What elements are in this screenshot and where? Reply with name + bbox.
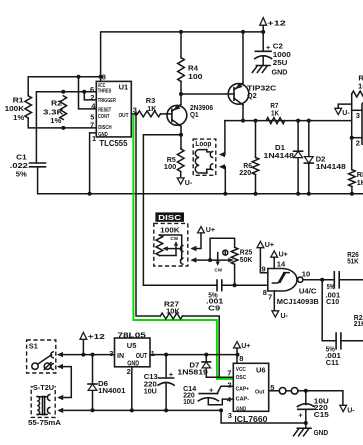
node: R4 bottom / Q2 base junction bbox=[179, 92, 183, 96]
svg-text:R1: R1 bbox=[13, 97, 24, 104]
resistor R6 bbox=[252, 158, 259, 175]
potentiometer DISC dashed box bbox=[154, 223, 188, 266]
svg-text:3: 3 bbox=[356, 111, 360, 120]
supply +12 bottom bbox=[80, 332, 105, 354]
connector arrow into S1 bottom bbox=[57, 364, 63, 369]
wire: green highlighted trace OUT to OSC bbox=[133, 115, 233, 379]
supply V- below R5 bbox=[177, 172, 193, 188]
svg-text:1N4148: 1N4148 bbox=[264, 153, 295, 160]
svg-text:C1: C1 bbox=[16, 154, 27, 161]
ground symbol bottom bbox=[294, 423, 329, 437]
resistor R7 bbox=[266, 118, 284, 124]
wire: R25 top over-loop bbox=[210, 238, 235, 260]
svg-text:100K: 100K bbox=[160, 225, 180, 234]
connector arrow into S1 top bbox=[57, 352, 63, 357]
svg-text:1N4148: 1N4148 bbox=[316, 164, 346, 171]
svg-text:R7: R7 bbox=[270, 103, 278, 110]
label 55-75mA bbox=[28, 419, 62, 428]
svg-text:2: 2 bbox=[90, 93, 94, 102]
svg-text:U5: U5 bbox=[127, 341, 137, 350]
ground symbol below C2 bbox=[252, 66, 287, 77]
svg-text:10K: 10K bbox=[166, 308, 180, 315]
connector arrow into loop upper terminal bbox=[219, 152, 225, 157]
node: OUT pin 3 junction bbox=[134, 112, 138, 116]
diode D2 1N4148 bbox=[304, 121, 313, 194]
node: R6 top junction bbox=[254, 119, 258, 123]
IC U1 TLC555 box bbox=[96, 81, 131, 136]
wire: pin 2 line to cut IC bbox=[352, 137, 362, 139]
potentiometer DISC 100K bbox=[156, 235, 183, 264]
wire: GND pin 1 to ground rail bbox=[90, 133, 97, 194]
capacitor C1 bbox=[30, 163, 46, 167]
node: +12 / C2 junction on top rail bbox=[261, 30, 265, 34]
connector circle pair on output bbox=[279, 388, 286, 395]
wire: R27 to OSC drop bbox=[182, 316, 219, 377]
wire: OUT trace down to R27 bbox=[136, 114, 160, 316]
wire: Q1 collector node to R5 bbox=[180, 126, 182, 149]
svg-text:1%: 1% bbox=[50, 118, 62, 125]
svg-text:CW: CW bbox=[214, 267, 222, 272]
node: R25 bottom junction bbox=[233, 283, 237, 287]
svg-text:OUT: OUT bbox=[136, 353, 148, 360]
svg-text:100: 100 bbox=[164, 164, 177, 171]
supply U+ above U6 bbox=[234, 342, 251, 364]
wire: RESET pin 4 branch bbox=[79, 77, 97, 109]
wire: OSC feed into U6 bbox=[206, 376, 233, 378]
svg-text:21K: 21K bbox=[354, 321, 363, 328]
node: R6 bottom junction bbox=[254, 192, 258, 196]
transistor Q2 TIP32C bbox=[228, 83, 249, 105]
svg-text:50K: 50K bbox=[240, 257, 253, 264]
svg-text:DISCH: DISCH bbox=[98, 125, 112, 131]
svg-text:R8: R8 bbox=[358, 75, 363, 82]
node: pin2 tap junction right edge bbox=[350, 136, 354, 140]
svg-text:D1: D1 bbox=[275, 145, 285, 152]
wire: S1 top feed line bbox=[63, 354, 115, 356]
svg-text:S1: S1 bbox=[29, 343, 38, 350]
svg-text:100: 100 bbox=[188, 74, 203, 81]
svg-text:8: 8 bbox=[263, 288, 267, 297]
svg-text:3: 3 bbox=[228, 411, 232, 420]
wire: CAP- pin 4 jog to C14 bottom bbox=[208, 399, 233, 405]
wire: U5 OUT rail to U6 VCC bbox=[150, 354, 238, 356]
svg-text:R6: R6 bbox=[243, 163, 252, 170]
svg-text:U-: U- bbox=[185, 180, 193, 187]
switch S1 dashed box bbox=[27, 340, 56, 373]
connector arrow into transformer top bbox=[57, 395, 63, 400]
svg-text:S-T2U: S-T2U bbox=[33, 385, 54, 392]
wire: S1 bottom loop to transformer top bbox=[63, 367, 71, 398]
node: loop return junction on ground rail bbox=[223, 192, 227, 196]
capacitor C15 electrolytic bbox=[297, 391, 314, 423]
svg-text:5%: 5% bbox=[16, 172, 28, 179]
wire: R4 top to +12 rail bbox=[180, 32, 182, 58]
transistor Q1 2N3906 bbox=[167, 104, 187, 126]
svg-text:IN: IN bbox=[117, 353, 124, 360]
svg-text:Loop: Loop bbox=[195, 141, 211, 148]
svg-text:+12: +12 bbox=[88, 332, 105, 341]
svg-text:1: 1 bbox=[151, 349, 155, 358]
connector arrow into transformer bottom bbox=[57, 408, 63, 413]
capacitor C10 bbox=[334, 272, 339, 288]
wire: C10 right lead off edge bbox=[339, 279, 363, 281]
wire: CAP+ pin 2 jog to C14 top bbox=[217, 386, 233, 393]
supply U+ for U4 pin 9 bbox=[257, 241, 274, 272]
node: D7 top junction bbox=[204, 353, 208, 357]
svg-text:+: + bbox=[266, 43, 271, 52]
svg-text:7: 7 bbox=[90, 120, 94, 129]
wire: C11 right lead off edge bbox=[341, 340, 363, 342]
connector arrow into DISC pot end bbox=[190, 257, 196, 262]
node: D2 bottom junction bbox=[307, 192, 311, 196]
gate U4/C MCJ14093B bbox=[268, 269, 303, 292]
wire: U4 output to C10 bbox=[303, 279, 335, 281]
IC U6 ICL7660 box bbox=[233, 363, 268, 411]
wire: transformer return rail bbox=[63, 409, 221, 411]
svg-text:R4: R4 bbox=[188, 65, 198, 72]
connector arrow into DISC pot wiper bbox=[190, 246, 196, 251]
supply V- for U4 pin 7 bbox=[272, 291, 289, 320]
diode D7 1N5819 bbox=[202, 355, 211, 378]
svg-text:OSC: OSC bbox=[236, 375, 247, 381]
wire: C1 bottom to ground rail bbox=[38, 167, 363, 194]
svg-text:1: 1 bbox=[92, 134, 96, 143]
svg-text:U4/C: U4/C bbox=[299, 287, 317, 296]
svg-text:CAP-: CAP- bbox=[236, 397, 250, 403]
capacitor C11 bbox=[336, 333, 341, 349]
svg-text:GND: GND bbox=[272, 70, 288, 77]
svg-text:R8: R8 bbox=[357, 172, 363, 179]
wire: C9 left lead bbox=[143, 284, 217, 286]
svg-text:55-75mA: 55-75mA bbox=[28, 420, 61, 427]
supply V- top right bbox=[335, 104, 352, 117]
svg-text:7: 7 bbox=[268, 292, 272, 301]
wire: R1 bottom to DISCH line bbox=[28, 118, 96, 128]
svg-text:8: 8 bbox=[239, 354, 243, 363]
node: D6 top junction bbox=[91, 353, 95, 357]
wire: pin 3 line to cut IC bbox=[352, 109, 362, 111]
capacitor C2 electrolytic bbox=[255, 32, 272, 66]
node: Q2 collector junction bbox=[241, 119, 245, 123]
node: D1 bottom junction bbox=[296, 192, 300, 196]
label S-T2U bbox=[33, 384, 55, 393]
node: GND pin junction on ground rail bbox=[88, 192, 92, 196]
svg-text:RESET: RESET bbox=[98, 107, 111, 113]
svg-text:78L05: 78L05 bbox=[117, 332, 146, 339]
svg-text:2N3906: 2N3906 bbox=[190, 105, 213, 112]
svg-text:GND: GND bbox=[314, 430, 329, 437]
svg-text:1000: 1000 bbox=[273, 52, 291, 59]
svg-text:.022: .022 bbox=[10, 163, 28, 170]
svg-text:U-: U- bbox=[347, 407, 355, 414]
wire: U5 GND to return rail bbox=[131, 367, 133, 411]
wire: C9 right lead to U4 pin 8 bbox=[222, 284, 268, 286]
wire: R6 bottom lead bbox=[255, 175, 257, 194]
svg-text:220: 220 bbox=[144, 381, 157, 388]
svg-text:3: 3 bbox=[109, 349, 113, 358]
svg-text:10U: 10U bbox=[144, 389, 157, 396]
wire: tap to C9 down-run bbox=[143, 135, 181, 286]
node: Q2 emitter junction on +12 rail bbox=[241, 30, 245, 34]
wire: Q1 emitter to R4 junction bbox=[180, 94, 182, 104]
svg-text:R2: R2 bbox=[51, 101, 62, 108]
svg-text:U+: U+ bbox=[279, 251, 288, 258]
svg-text:DISC: DISC bbox=[158, 213, 182, 222]
svg-text:14: 14 bbox=[277, 259, 286, 268]
wire: R9 bottom to ground rail bbox=[351, 187, 353, 194]
svg-text:1K: 1K bbox=[147, 104, 157, 113]
wire: Q2 collector drop to loop rail bbox=[242, 105, 244, 121]
svg-text:9: 9 bbox=[262, 264, 266, 273]
capacitor C13 electrolytic bbox=[158, 355, 174, 411]
node: C15 bottom ground junction bbox=[304, 421, 308, 425]
wire: output to C15 and V- bbox=[298, 391, 343, 405]
node: D2 top junction bbox=[307, 119, 311, 123]
svg-text:U-: U- bbox=[342, 110, 350, 117]
svg-text:220: 220 bbox=[239, 170, 251, 177]
svg-text:Out: Out bbox=[255, 389, 265, 395]
svg-text:1N5819: 1N5819 bbox=[177, 369, 208, 376]
node: C13 top junction bbox=[164, 353, 168, 357]
svg-text:C11: C11 bbox=[326, 360, 339, 367]
supply +12 top bbox=[260, 18, 286, 32]
svg-text:1N4001: 1N4001 bbox=[98, 388, 126, 395]
supply U+ disc wiper bbox=[196, 227, 215, 249]
svg-text:Q1: Q1 bbox=[190, 112, 199, 119]
node: R2 top junction on THRES line bbox=[61, 90, 65, 94]
svg-text:2: 2 bbox=[227, 381, 231, 390]
svg-text:10U: 10U bbox=[183, 399, 195, 406]
resistor R1 bbox=[25, 96, 32, 118]
node: +12 junction bbox=[81, 353, 85, 357]
svg-text:TIP32C: TIP32C bbox=[247, 85, 276, 92]
svg-text:VCC: VCC bbox=[236, 367, 246, 373]
wire: Q2 base line bbox=[181, 93, 234, 95]
wire: R6 top lead bbox=[255, 121, 257, 158]
wire: R3 to Q1 base bbox=[161, 113, 172, 115]
node: R2 bottom junction on DISCH line bbox=[61, 126, 65, 130]
svg-text:51K: 51K bbox=[347, 258, 359, 265]
svg-text:2: 2 bbox=[127, 367, 131, 376]
label DISC inverse bbox=[155, 212, 184, 222]
svg-text:10: 10 bbox=[302, 269, 310, 278]
connector Loop dashed box bbox=[193, 139, 216, 175]
wire: U6 Out pin 5 bbox=[269, 390, 280, 392]
svg-text:8: 8 bbox=[102, 72, 106, 81]
svg-text:+12: +12 bbox=[267, 19, 286, 28]
wire: loop rail left drop to upper loop arrow bbox=[223, 121, 225, 155]
svg-text:C10: C10 bbox=[326, 299, 339, 306]
supply V- output bbox=[340, 405, 355, 414]
svg-text:.001: .001 bbox=[325, 353, 341, 360]
inductor loop coil bbox=[195, 150, 212, 173]
wire: output down to C11 bbox=[322, 280, 336, 341]
svg-text:C15: C15 bbox=[314, 412, 329, 419]
svg-text:GND: GND bbox=[236, 406, 246, 412]
svg-text:CONT: CONT bbox=[98, 114, 110, 120]
node: pin 8 riser junction with VCC wire bbox=[99, 75, 103, 79]
capacitor C9 bbox=[217, 280, 222, 291]
supply U+ for U4 pin 14 bbox=[271, 251, 288, 269]
diode D6 1N4001 bbox=[88, 355, 97, 411]
resistor R8 partial at right edge bbox=[352, 91, 363, 97]
resistor R5 bbox=[177, 149, 184, 172]
node: GND pin rail junction bbox=[219, 408, 223, 412]
svg-text:THRES: THRES bbox=[98, 88, 112, 94]
connector arrow from loop lower terminal bbox=[219, 164, 225, 169]
svg-text:220: 220 bbox=[314, 405, 328, 412]
IC U2 cut box edge bbox=[362, 103, 363, 145]
node: C13 bottom junction bbox=[164, 408, 168, 412]
node: Q1 collector / C9 tap junction bbox=[179, 133, 183, 137]
svg-text:R27: R27 bbox=[164, 301, 179, 308]
svg-text:U+: U+ bbox=[241, 343, 250, 350]
node: C15 top junction bbox=[304, 389, 308, 393]
svg-text:U-: U- bbox=[281, 313, 289, 320]
wire: THRES line to C1 bbox=[36, 92, 96, 163]
svg-text:5%: 5% bbox=[327, 284, 336, 291]
wire: OUT pin 3 stub bbox=[131, 113, 137, 115]
capacitor C14 electrolytic bbox=[198, 386, 218, 401]
svg-text:U6: U6 bbox=[256, 365, 266, 374]
wire: R4 bottom lead bbox=[180, 81, 182, 94]
svg-text:GND: GND bbox=[98, 132, 108, 138]
wire: VCC top rail from R1 to U1 pin 8 bbox=[28, 77, 100, 96]
node: R9 bottom junction bbox=[350, 192, 354, 196]
wire: R25 bottom to C9 line bbox=[234, 264, 236, 285]
svg-text:U1: U1 bbox=[119, 83, 129, 92]
wire: lower loop arrow to ground rail bbox=[223, 167, 226, 194]
resistor R4 bbox=[178, 58, 185, 82]
svg-text:+: + bbox=[209, 386, 214, 395]
node: output fan junction bbox=[320, 278, 324, 282]
svg-text:U+: U+ bbox=[265, 242, 274, 249]
node: D1 top junction bbox=[296, 119, 300, 123]
wire: TRIGGER pin 2 branch bbox=[84, 92, 96, 100]
svg-text:R25: R25 bbox=[240, 249, 253, 256]
node: U+ / OUT rail junction bbox=[236, 353, 240, 357]
node: R4 top junction bbox=[179, 30, 183, 34]
svg-text:25U: 25U bbox=[273, 60, 288, 67]
node: junction to R25 top loop bbox=[208, 258, 212, 262]
svg-text:3.3K: 3.3K bbox=[43, 109, 64, 116]
regulator U5 78L05 box bbox=[115, 338, 151, 367]
svg-text:Q2: Q2 bbox=[247, 93, 257, 100]
svg-text:100K: 100K bbox=[5, 106, 25, 113]
svg-text:C13: C13 bbox=[144, 374, 158, 381]
resistor R3 bbox=[138, 111, 161, 117]
svg-text:D2: D2 bbox=[316, 157, 326, 164]
svg-text:CAP+: CAP+ bbox=[236, 387, 250, 393]
switch S1 contacts bbox=[32, 352, 53, 370]
svg-text:2: 2 bbox=[356, 139, 360, 148]
svg-text:D6: D6 bbox=[98, 381, 108, 388]
svg-text:+: + bbox=[298, 410, 303, 419]
svg-text:CW: CW bbox=[170, 236, 178, 241]
svg-text:10: 10 bbox=[358, 84, 363, 91]
node: U5 GND junction bbox=[130, 408, 134, 412]
wire: pin 8 riser to top rail bbox=[101, 32, 264, 82]
wire: DISC pot end to R25 wiper bbox=[196, 259, 231, 261]
svg-text:C9: C9 bbox=[208, 306, 220, 313]
transformer T1 dashed box bbox=[31, 387, 55, 418]
node: THRES-TRIGGER tie junction bbox=[82, 90, 86, 94]
svg-text:TLC555: TLC555 bbox=[99, 139, 128, 148]
svg-text:TRIGGER: TRIGGER bbox=[98, 98, 116, 104]
svg-text:+: + bbox=[169, 370, 174, 379]
svg-text:7: 7 bbox=[227, 369, 231, 378]
resistor R9 1K right edge bbox=[349, 170, 356, 187]
node: junction on VCC rail feeding RESET bbox=[77, 75, 81, 79]
diode D1 1N4148 bbox=[294, 121, 303, 194]
wire: ground run from rail jog to C15 bottom bbox=[221, 410, 306, 423]
transformer T1 coil bbox=[37, 395, 50, 415]
svg-text:C2: C2 bbox=[273, 44, 283, 51]
svg-text:1K: 1K bbox=[271, 110, 279, 117]
resistor R27 bbox=[160, 313, 182, 319]
node: D6 bottom junction bbox=[91, 408, 95, 412]
svg-text:U+: U+ bbox=[206, 227, 215, 234]
wire: loop top rail Q2 collector to right edge bbox=[225, 120, 352, 122]
wire: Q2 emitter riser to +12 rail bbox=[242, 32, 244, 83]
resistor R2 bbox=[60, 96, 67, 120]
svg-text:MCJ14093B: MCJ14093B bbox=[277, 297, 320, 306]
svg-text:R5: R5 bbox=[167, 157, 176, 164]
svg-text:1%: 1% bbox=[13, 115, 25, 122]
svg-text:1K: 1K bbox=[357, 180, 363, 187]
trimmer R25 50K bbox=[214, 247, 238, 272]
svg-text:OUT: OUT bbox=[119, 113, 129, 119]
wire: right edge vertical from R8 to R9 bbox=[351, 94, 353, 170]
wire: link between connector circles bbox=[286, 390, 291, 392]
